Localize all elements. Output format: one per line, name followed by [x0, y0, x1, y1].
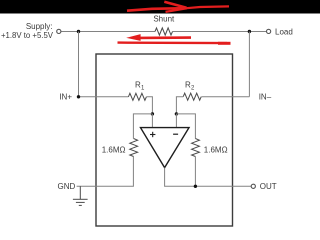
- load terminal circle: [267, 29, 271, 33]
- wire: +input lead into op-amp: [151, 114, 153, 128]
- wire: op-amp output to OUT: [165, 168, 252, 187]
- junction dot supply rail right: [248, 30, 251, 33]
- node dot +input: [151, 112, 154, 115]
- svg-text:Shunt: Shunt: [153, 15, 175, 24]
- svg-text:+1.8V to +5.5V: +1.8V to +5.5V: [1, 31, 54, 40]
- red annotation arrow pointing right (top): [127, 2, 229, 12]
- junction dot supply rail left: [77, 30, 80, 33]
- wire: IN- vertical corner to R2: [202, 96, 250, 98]
- svg-text:OUT: OUT: [260, 182, 277, 191]
- junction dot output: [194, 185, 197, 188]
- resistor 1.6M ohm left: [130, 139, 138, 157]
- supply terminal circle: [57, 29, 61, 33]
- op-amp + pin marking: [150, 132, 155, 137]
- wire: +input node to left 1.6M: [133, 114, 152, 139]
- wire: vertical from supply rail to IN-: [248, 32, 250, 97]
- resistor R2: [183, 93, 201, 100]
- junction dot IN+: [77, 95, 80, 98]
- ground symbol: [73, 186, 88, 205]
- red annotation arrow pointing left (below shunt): [118, 34, 231, 43]
- OUT terminal circle: [251, 184, 255, 188]
- svg-text:Load: Load: [275, 27, 293, 36]
- wire: vertical from supply rail to IN+: [78, 32, 80, 97]
- svg-text:1: 1: [141, 85, 145, 91]
- wire: -input node to right 1.6M: [176, 114, 195, 139]
- wire: IN+ to R1: [79, 96, 129, 98]
- op-amp - pin marking: [173, 133, 178, 135]
- wire: R1 to +input node: [146, 97, 152, 114]
- svg-text:IN+: IN+: [59, 93, 72, 102]
- op-amp U1: [141, 128, 190, 168]
- resistor Shunt: [155, 28, 173, 35]
- wire: top supply rail right segment: [173, 31, 267, 33]
- node dot -input: [175, 112, 178, 115]
- wire: top supply rail left segment: [61, 31, 155, 33]
- wire: right 1.6M to OUT rail: [194, 157, 196, 187]
- svg-text:Supply:: Supply:: [26, 22, 53, 31]
- svg-text:1.6MΩ: 1.6MΩ: [204, 145, 228, 154]
- top black letterbox bar: [0, 0, 320, 14]
- wire: left 1.6M to GND rail: [77, 157, 134, 187]
- svg-text:2: 2: [191, 85, 195, 91]
- svg-text:IN–: IN–: [259, 93, 272, 102]
- svg-text:1.6MΩ: 1.6MΩ: [102, 145, 126, 154]
- svg-text:GND: GND: [58, 182, 76, 191]
- IC boundary box: [96, 54, 233, 226]
- resistor R1: [128, 93, 146, 100]
- wire: -input lead into op-amp: [175, 114, 177, 128]
- wire: R2 to -input node: [176, 97, 183, 114]
- resistor 1.6M ohm right: [192, 139, 200, 157]
